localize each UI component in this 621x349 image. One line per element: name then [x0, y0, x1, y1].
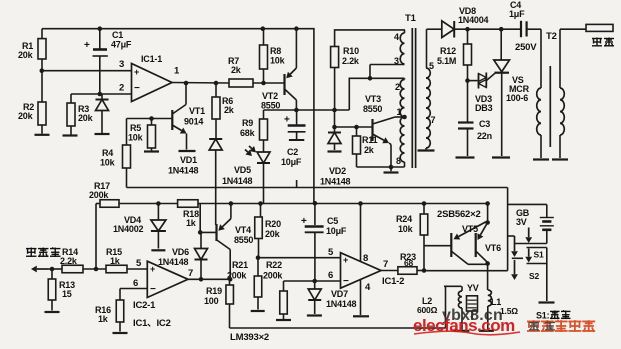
- node output/VT1 collector: [184, 81, 189, 86]
- svg-text:1μF: 1μF: [509, 9, 525, 19]
- wire rail V2 right: [198, 203, 488, 205]
- transformer T2 secondary: [560, 29, 564, 158]
- capacitor C2: [281, 110, 306, 188]
- node R5/base wire: [149, 116, 154, 121]
- transistor VT5: [451, 222, 486, 264]
- ignition electrode terminal: [586, 24, 613, 31]
- ground VT3 emitter: [384, 171, 399, 173]
- svg-text:−: −: [343, 276, 349, 287]
- svg-text:C1: C1: [112, 30, 123, 40]
- svg-text:15: 15: [62, 289, 72, 299]
- svg-text:R21: R21: [232, 260, 248, 270]
- wire VT5 collector join: [462, 224, 478, 234]
- node top rail / R8: [261, 26, 266, 31]
- photodiode VD5: [222, 146, 270, 204]
- ground VD4: [151, 249, 165, 251]
- ground R3: [63, 134, 78, 136]
- op-amp IC1-2: [341, 253, 382, 289]
- svg-text:S2: S2: [529, 271, 539, 281]
- svg-text:200k: 200k: [89, 190, 109, 200]
- ground L2: [453, 330, 469, 332]
- svg-text:600Ω: 600Ω: [417, 305, 438, 315]
- resistor R14: [60, 247, 83, 273]
- svg-text:1N4148: 1N4148: [326, 299, 357, 309]
- wire IC1-1 output: [172, 82, 229, 85]
- capacitor C3: [458, 119, 492, 156]
- resistor R13: [48, 269, 75, 311]
- svg-text:2k: 2k: [364, 145, 375, 155]
- svg-text:5: 5: [429, 61, 434, 71]
- svg-text:VT4: VT4: [235, 225, 251, 235]
- svg-text:R8: R8: [270, 46, 281, 56]
- transistor VT2: [261, 29, 296, 111]
- resistor R3: [67, 94, 94, 135]
- svg-text:3: 3: [119, 59, 124, 70]
- ground S2: [539, 301, 555, 303]
- svg-text:VT3: VT3: [365, 94, 381, 104]
- svg-text:VT5: VT5: [462, 224, 478, 234]
- svg-text:R10: R10: [343, 46, 359, 56]
- wire VT5/VT6 collectors: [468, 263, 488, 265]
- solenoid valve YV: [467, 283, 479, 320]
- wire bottom rail: [230, 327, 446, 329]
- wire rail V2 mid: [119, 203, 178, 205]
- resistor R20: [255, 204, 281, 258]
- svg-text:1N4148: 1N4148: [168, 166, 199, 176]
- svg-text:6: 6: [328, 270, 333, 281]
- resistor R16: [95, 289, 124, 332]
- wire IC2-1 output: [188, 278, 230, 280]
- wire IC1-2 pin5 net: [259, 257, 341, 259]
- wire VD2/R11/VT3 base: [335, 110, 373, 127]
- svg-text:R9: R9: [242, 118, 253, 128]
- node VD6 anode on output: [199, 277, 204, 282]
- node VD8/VS anode: [499, 27, 504, 32]
- svg-text:8550: 8550: [261, 101, 280, 111]
- svg-text:−: −: [134, 83, 140, 94]
- op-amp IC1-1: [132, 54, 173, 102]
- svg-text:VT1: VT1: [189, 106, 205, 116]
- svg-text:2k: 2k: [224, 105, 235, 115]
- svg-text:100-6: 100-6: [506, 93, 528, 103]
- watermark dianzifashaoyou: [527, 320, 595, 332]
- wire IC1-2 pin4 ground: [360, 279, 362, 315]
- svg-text:1k: 1k: [186, 218, 197, 228]
- svg-text:22n: 22n: [477, 131, 492, 141]
- capacitor C1: [84, 29, 132, 94]
- svg-text:8550: 8550: [363, 104, 382, 114]
- resistor R4: [100, 119, 131, 188]
- svg-text:10μF: 10μF: [281, 157, 302, 167]
- svg-text:4: 4: [394, 32, 399, 42]
- node VT5/VT6 emitters: [485, 220, 490, 225]
- svg-text:68k: 68k: [240, 128, 256, 138]
- diode VD4: [113, 204, 166, 249]
- thyristor VS: [494, 29, 530, 156]
- op-amp IC2-1: [147, 261, 188, 297]
- svg-text:R24: R24: [396, 214, 412, 224]
- wire R17 column: [95, 204, 97, 270]
- wire battery positive feed: [508, 204, 547, 217]
- node VT4 emitter on rail: [229, 201, 234, 206]
- capacitor C5: [301, 203, 347, 281]
- svg-text:6: 6: [133, 278, 138, 289]
- svg-text:+: +: [343, 255, 348, 265]
- diac VD3: [468, 73, 496, 114]
- svg-text:C3: C3: [479, 119, 490, 129]
- resistor R21: [227, 258, 262, 310]
- node R20/R21: [256, 255, 261, 260]
- wire IC2-1 pin6 net: [120, 288, 147, 290]
- svg-text:S1: S1: [534, 250, 544, 260]
- ground IC1-2 pin4: [353, 315, 369, 317]
- svg-text:2: 2: [119, 83, 124, 94]
- svg-text:R20: R20: [265, 219, 281, 229]
- wire VT4 base net: [200, 204, 216, 233]
- ground R16: [113, 332, 128, 334]
- wire ignition output: [560, 28, 586, 30]
- wire IC1-1 pin2 net: [71, 93, 132, 95]
- wire R7 to VT2 base: [253, 82, 285, 84]
- svg-text:3: 3: [394, 56, 399, 66]
- resistor R15: [106, 247, 147, 273]
- transformer T1 secondary winding 5-7: [426, 29, 430, 149]
- svg-text:7: 7: [383, 259, 388, 270]
- svg-text:47μF: 47μF: [111, 40, 132, 50]
- node VT5/VT6 emitters on rail: [485, 201, 490, 206]
- resistor R2: [18, 71, 46, 134]
- capacitor C4: [509, 0, 537, 53]
- node R13: [50, 267, 55, 272]
- ground VS cathode: [492, 156, 510, 158]
- svg-text:1N4148: 1N4148: [320, 177, 351, 187]
- wire VT5/VT6 emitter feed: [487, 204, 489, 223]
- svg-text:2SB562×2: 2SB562×2: [437, 209, 481, 220]
- svg-text:DB3: DB3: [475, 103, 493, 113]
- svg-text:1N4002: 1N4002: [113, 224, 144, 234]
- svg-text:IC1-1: IC1-1: [141, 54, 162, 64]
- svg-text:VD1: VD1: [180, 155, 197, 165]
- node R1/R2 junction: [40, 68, 45, 73]
- svg-text:R11: R11: [362, 135, 378, 145]
- ground R21: [251, 310, 265, 312]
- ground diode D: [95, 133, 110, 135]
- svg-text:VT6: VT6: [485, 243, 501, 253]
- node VD4 on rail: [156, 201, 161, 206]
- transformer T1 winding 4-3-2-1-8: [400, 30, 404, 167]
- label GB 3V: [516, 208, 530, 227]
- ground VD7: [307, 314, 322, 316]
- svg-text:10k: 10k: [398, 224, 414, 234]
- svg-text:2.2k: 2.2k: [342, 56, 360, 66]
- ground T2 secondary: [552, 158, 568, 160]
- svg-text:8: 8: [363, 253, 368, 264]
- transistor VT4: [217, 203, 254, 279]
- inductor L2: [417, 286, 462, 329]
- svg-text:200k: 200k: [263, 271, 283, 281]
- svg-text:R22: R22: [266, 260, 282, 270]
- wire IC1-2 output: [381, 270, 398, 272]
- svg-text:10k: 10k: [128, 133, 144, 143]
- resistor R10: [331, 30, 405, 110]
- node top rail / C1: [98, 26, 103, 31]
- svg-text:T1: T1: [405, 13, 417, 24]
- inductor L1: [488, 264, 519, 330]
- svg-text:10μF: 10μF: [326, 226, 347, 236]
- svg-text:VD6: VD6: [172, 247, 189, 257]
- svg-text:68: 68: [404, 258, 414, 268]
- svg-text:5.1M: 5.1M: [437, 56, 456, 66]
- switch S1: [508, 228, 547, 264]
- svg-text:2k: 2k: [231, 65, 242, 75]
- svg-text:9014: 9014: [184, 117, 203, 127]
- node output/R6: [214, 81, 219, 86]
- svg-text:100: 100: [204, 296, 219, 306]
- node VD2 top: [332, 125, 337, 130]
- svg-text:VD2: VD2: [329, 166, 346, 176]
- wire thermocouple input: [31, 266, 62, 273]
- switch S2: [511, 258, 547, 301]
- svg-text:R4: R4: [102, 148, 113, 158]
- wire top supply rail: [42, 29, 314, 204]
- node rail/R10/VD2: [332, 108, 337, 113]
- node VD8/R12: [465, 27, 470, 32]
- svg-text:LM393×2: LM393×2: [230, 332, 269, 343]
- svg-text:1k: 1k: [110, 256, 121, 266]
- diode D at pin2: [96, 94, 109, 133]
- resistor R24: [396, 204, 428, 271]
- node rail/VT2 collector: [294, 108, 299, 113]
- resistor R17: [89, 181, 119, 207]
- transformer T2 primary: [527, 29, 541, 158]
- svg-text:−: −: [150, 284, 156, 295]
- wire R23 node to supply column: [424, 270, 508, 272]
- svg-text:+: +: [134, 67, 139, 77]
- battery GB: [540, 218, 554, 244]
- node T1 pin1/VT3 collector: [402, 115, 407, 120]
- svg-text:2: 2: [395, 82, 400, 92]
- node R17 column: [94, 267, 99, 272]
- resistor R1: [18, 29, 46, 71]
- node VD6/VT4 base: [198, 230, 203, 235]
- node C1/pin2: [98, 92, 103, 97]
- svg-text:1N4148: 1N4148: [158, 257, 189, 267]
- svg-text:S1:: S1:: [536, 311, 550, 321]
- wire rail V2: [96, 203, 100, 205]
- label thermocouple (re dian ou): [26, 248, 61, 257]
- diode VD6: [158, 232, 208, 279]
- svg-text:C2: C2: [287, 147, 298, 157]
- label ignition (dian huo): [592, 38, 614, 47]
- ground C3: [456, 156, 475, 158]
- svg-text:8550: 8550: [234, 235, 253, 245]
- svg-text:IC1-2: IC1-2: [382, 276, 404, 287]
- T1 core: [412, 28, 415, 168]
- svg-text:20k: 20k: [18, 50, 34, 60]
- diode VD2: [320, 127, 351, 187]
- svg-text:20k: 20k: [18, 111, 34, 121]
- svg-text:3V: 3V: [516, 217, 527, 227]
- svg-text:1N4148: 1N4148: [222, 176, 253, 186]
- svg-text:10k: 10k: [270, 56, 286, 66]
- resistor R12: [437, 29, 472, 122]
- svg-text:7: 7: [431, 115, 436, 125]
- svg-text:1: 1: [397, 107, 402, 117]
- resistor R8: [260, 29, 286, 83]
- resistor R5: [128, 119, 156, 151]
- transistor VT3: [363, 94, 405, 167]
- wire base drive to VT5/VT6: [424, 245, 451, 247]
- ground R2: [35, 134, 50, 136]
- resistor R22: [263, 260, 287, 319]
- svg-text:2.2k: 2.2k: [60, 256, 78, 266]
- svg-text:VD5: VD5: [234, 165, 251, 175]
- resistor R11: [353, 127, 405, 167]
- label S1 water control: [536, 310, 571, 320]
- svg-text:R19: R19: [206, 286, 222, 296]
- wire R14-R15: [83, 268, 106, 270]
- ground R22: [276, 319, 291, 321]
- svg-text:IC2-1: IC2-1: [133, 300, 156, 311]
- svg-text:1k: 1k: [98, 314, 109, 324]
- node R12/VD3: [465, 78, 470, 83]
- svg-text:YV: YV: [467, 283, 479, 293]
- ground R13: [45, 311, 60, 313]
- svg-text:VD7: VD7: [331, 289, 348, 299]
- svg-text:+: +: [284, 115, 290, 126]
- ground R5: [144, 150, 159, 152]
- transistor VT1: [127, 83, 206, 150]
- resistor R6: [212, 83, 235, 139]
- svg-text:R12: R12: [440, 46, 456, 56]
- node R7/R8/VT2 base: [261, 81, 266, 86]
- ground T2 primary: [533, 158, 549, 160]
- wire IC1-2 pin8 to rail: [360, 204, 362, 262]
- resistor R23: [398, 252, 424, 274]
- node R23/R24: [422, 268, 427, 273]
- node R24 on rail: [422, 201, 427, 206]
- node R11 top: [354, 125, 359, 130]
- svg-text:+: +: [84, 40, 90, 51]
- node top rail / VT2 emitter: [294, 26, 299, 31]
- svg-text:C5: C5: [327, 216, 338, 226]
- resistor R7: [228, 56, 253, 87]
- node C5/VD7 on pin6 net: [312, 279, 317, 284]
- svg-text:250V: 250V: [515, 42, 537, 53]
- svg-text:7: 7: [188, 268, 193, 279]
- node T1 pin2/pin3 tap: [368, 76, 373, 81]
- diode VD7: [308, 281, 356, 314]
- svg-text:1N4004: 1N4004: [458, 15, 489, 25]
- svg-text:8: 8: [396, 156, 401, 166]
- svg-text:T2: T2: [546, 31, 557, 42]
- node R20/VD5 on rail: [258, 201, 263, 206]
- resistor R9: [240, 110, 268, 151]
- svg-text:20k: 20k: [78, 113, 94, 123]
- resistor R18: [178, 200, 200, 228]
- node VT4 collector/R19: [228, 277, 233, 282]
- wire rail V1: [127, 188, 508, 271]
- resistor R19: [204, 279, 233, 328]
- wire VT2 collector rail: [264, 65, 405, 111]
- svg-text:+: +: [301, 216, 307, 227]
- diode VD1: [168, 139, 222, 225]
- svg-text:10k: 10k: [100, 158, 116, 168]
- wire IC1-1 pin3 net: [42, 70, 132, 72]
- T2 core: [549, 66, 551, 147]
- svg-text:+: +: [150, 264, 155, 274]
- svg-text:20k: 20k: [265, 229, 281, 239]
- ground L1: [479, 330, 494, 332]
- wire IC1-2 pin6 net: [284, 280, 341, 282]
- svg-text:IC1、IC2: IC1、IC2: [133, 318, 171, 329]
- node C5 on rail: [313, 201, 318, 206]
- ground T1 secondary: [418, 149, 435, 151]
- node IC1-2 pin8 on rail: [358, 201, 363, 206]
- node VT3 emitter/R11/T1 pin8: [389, 165, 394, 170]
- ground VT1 emitter: [179, 150, 196, 152]
- svg-text:VT2: VT2: [262, 91, 278, 101]
- diode VD8: [427, 6, 521, 38]
- ground VD2: [328, 150, 342, 152]
- node collectors: [485, 261, 490, 266]
- transistor VT6: [476, 223, 501, 263]
- svg-text:R5: R5: [130, 123, 141, 133]
